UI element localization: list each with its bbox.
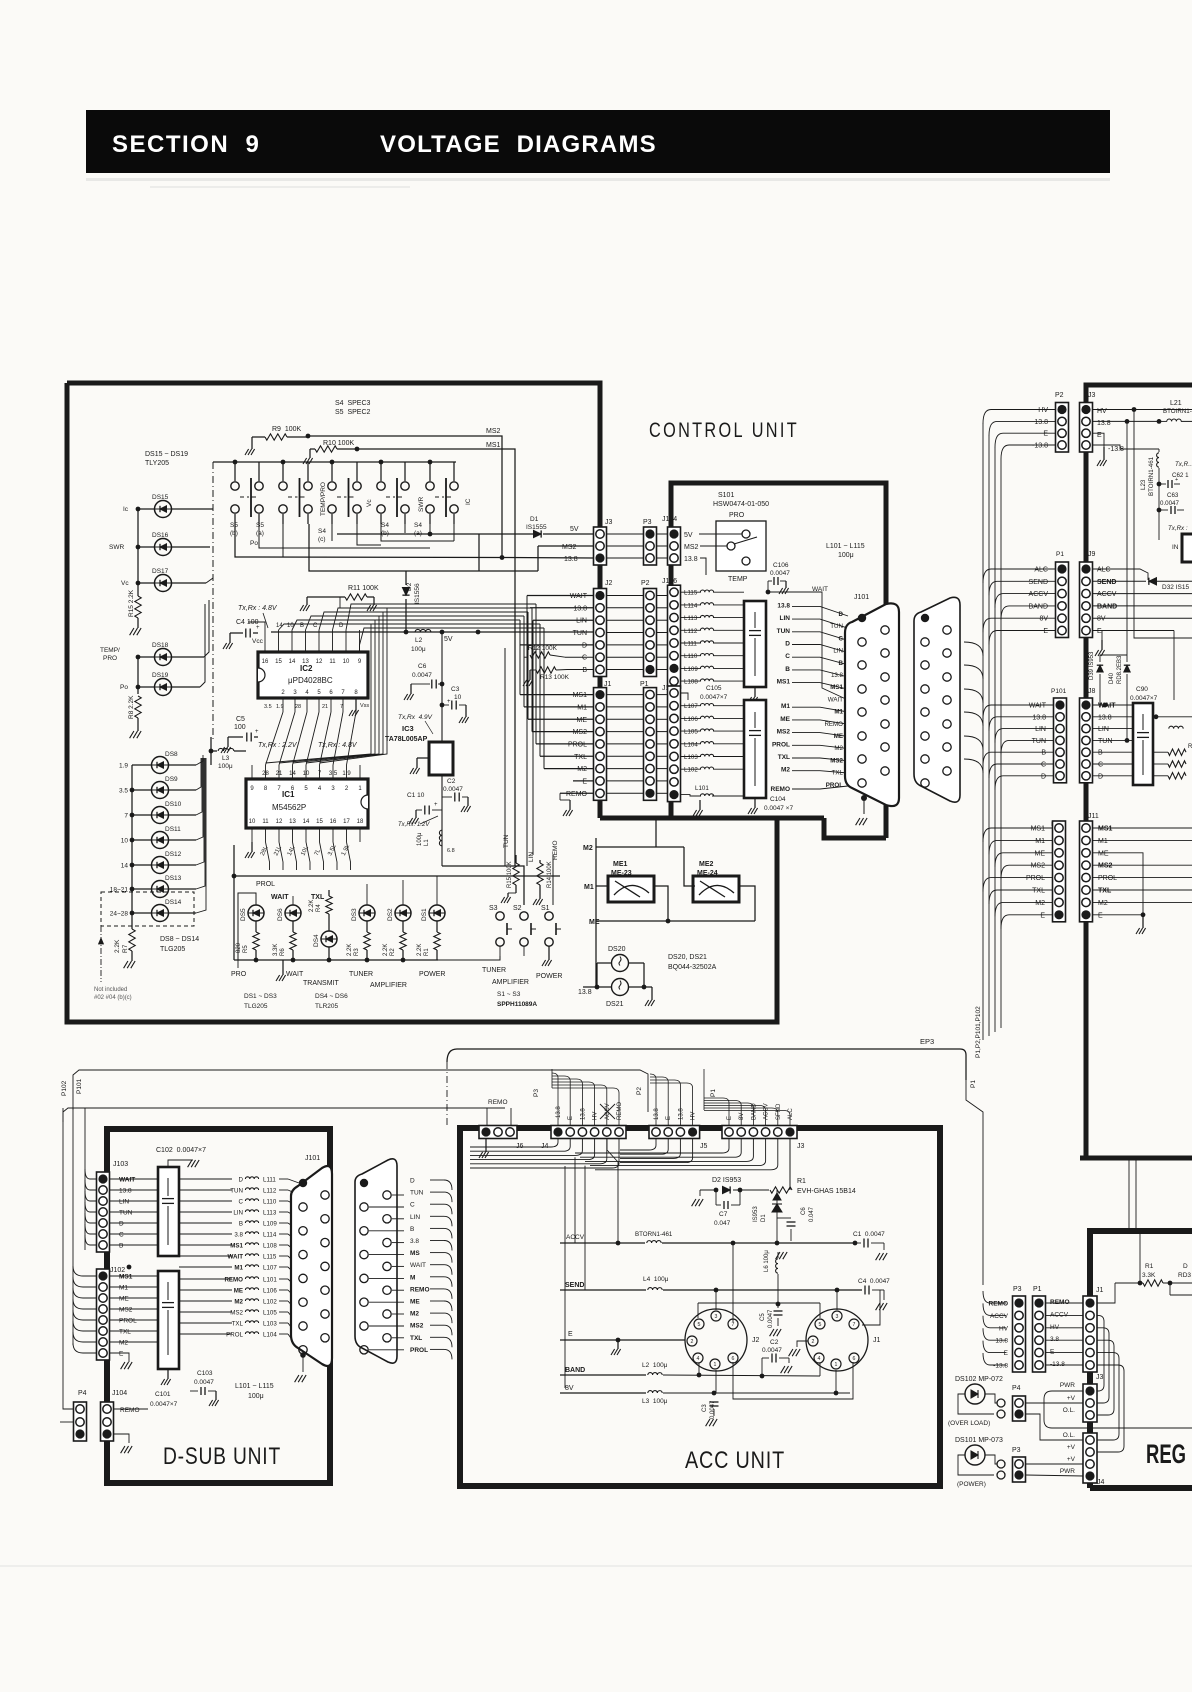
svg-text:BAND: BAND — [565, 1367, 585, 1374]
svg-text:M1: M1 — [1098, 838, 1108, 845]
svg-text:L23: L23 — [1140, 479, 1147, 490]
bus loop verticals IC2 to IC1 — [266, 624, 372, 763]
svg-text:+: + — [1175, 477, 1178, 483]
svg-text:AMPLIFIER: AMPLIFIER — [492, 979, 529, 986]
svg-text:C7: C7 — [719, 1211, 728, 1218]
vertical rail to IC3 — [441, 632, 443, 742]
svg-text:5: 5 — [819, 1322, 822, 1328]
svg-text:POWER: POWER — [419, 971, 445, 978]
svg-text:R14 100K: R14 100K — [547, 861, 553, 888]
svg-text:Tx,Rx : 2.2V: Tx,Rx : 2.2V — [258, 742, 298, 749]
svg-text:10: 10 — [121, 838, 129, 845]
wire R1 right dot down — [1169, 1283, 1171, 1295]
svg-text:L105: L105 — [263, 1310, 277, 1317]
wires into J2 rows — [527, 595, 593, 597]
svg-text:28: 28 — [295, 704, 301, 710]
svg-text:J3: J3 — [1096, 1374, 1104, 1381]
svg-text:M1: M1 — [577, 704, 587, 711]
svg-text:R15 2.2K: R15 2.2K — [128, 589, 135, 617]
svg-text:TXL: TXL — [778, 754, 790, 761]
wire DS5 top loop PRO — [238, 893, 256, 960]
svg-text:0.0047×7: 0.0047×7 — [1130, 695, 1158, 702]
svg-text:S4 SPEC3: S4 SPEC3 — [335, 400, 371, 407]
svg-text:ACC UNIT: ACC UNIT — [685, 1447, 785, 1474]
svg-text:IS953: IS953 — [753, 1206, 759, 1222]
svg-text:TXL: TXL — [574, 754, 587, 761]
svg-text:21: 21 — [322, 704, 328, 710]
svg-text:RD8.2EB3: RD8.2EB3 — [1117, 655, 1123, 684]
mating connector pins — [921, 614, 929, 622]
wire ACCV up to J4 — [617, 1162, 619, 1243]
vertical 13.8 feeder through D40 — [1126, 421, 1128, 662]
svg-text:B: B — [1098, 750, 1103, 757]
svg-text:Tx,Rx 4.9V: Tx,Rx 4.9V — [398, 714, 433, 721]
svg-text:TLG205: TLG205 — [160, 946, 185, 953]
resistor R1 EVH — [770, 1187, 792, 1193]
svg-text:100μ: 100μ — [411, 646, 426, 653]
svg-text:SEND: SEND — [1029, 579, 1048, 586]
svg-text:M1: M1 — [834, 709, 843, 716]
wires inductors to J101 dsub — [288, 1179, 299, 1183]
svg-text:ME: ME — [577, 717, 588, 724]
svg-text:S4: S4 — [318, 528, 326, 535]
svg-text:J2: J2 — [752, 1337, 760, 1344]
svg-text:DS12: DS12 — [165, 851, 182, 858]
svg-text:(a): (a) — [256, 530, 264, 537]
svg-text:(OVER LOAD): (OVER LOAD) — [948, 1420, 990, 1427]
svg-text:Po: Po — [250, 540, 258, 547]
svg-text:E: E — [119, 1351, 124, 1358]
svg-text:12: 12 — [316, 659, 323, 665]
svg-text:TEMP: TEMP — [728, 576, 748, 583]
svg-text:BAND: BAND — [1029, 603, 1048, 610]
svg-text:3: 3 — [836, 1314, 839, 1320]
svg-text:1.9: 1.9 — [276, 704, 284, 710]
svg-text:D: D — [839, 611, 844, 618]
svg-text:LIN: LIN — [576, 618, 587, 625]
svg-text:Tx,Rx :: Tx,Rx : — [1168, 525, 1188, 532]
svg-text:SWR: SWR — [109, 544, 124, 551]
svg-text:C105: C105 — [706, 685, 722, 692]
wires J3 rows right — [1093, 409, 1192, 411]
svg-text:DS14: DS14 — [165, 899, 182, 906]
svg-text:WAIT: WAIT — [1029, 703, 1047, 710]
wires J103 rows to C102 block — [110, 1178, 158, 1180]
svg-text:0.0047 ×7: 0.0047 ×7 — [764, 805, 793, 812]
svg-text:P1,P2,P101,P102: P1,P2,P101,P102 — [975, 1006, 982, 1058]
vertical HV feeder — [1132, 407, 1137, 412]
svg-text:L103: L103 — [684, 754, 698, 761]
wire J105 first row jog — [681, 693, 688, 700]
svg-text:B: B — [785, 666, 790, 673]
svg-text:7: 7 — [124, 813, 128, 820]
svg-text:R: R — [1188, 744, 1192, 750]
svg-text:BQ044-32502A: BQ044-32502A — [668, 964, 717, 971]
svg-text:MS2: MS2 — [410, 1323, 424, 1330]
svg-text:L110: L110 — [263, 1199, 277, 1206]
svg-text:DS4: DS4 — [313, 934, 320, 947]
svg-text:6: 6 — [853, 1356, 856, 1362]
svg-text:P1: P1 — [1056, 551, 1064, 558]
svg-text:DS4 ~ DS6: DS4 ~ DS6 — [315, 993, 348, 1000]
svg-text:J4: J4 — [541, 1143, 549, 1150]
svg-text:DS1 ~ DS3: DS1 ~ DS3 — [244, 993, 277, 1000]
svg-text:4: 4 — [818, 1356, 821, 1362]
svg-text:100μ: 100μ — [248, 1393, 264, 1400]
wire J2 pin1 down to 8V — [715, 1370, 717, 1393]
svg-text:100μ: 100μ — [838, 552, 854, 559]
links P1 to J105 rows — [657, 694, 667, 696]
svg-text:13.8: 13.8 — [995, 1338, 1008, 1345]
svg-text:WAIT: WAIT — [410, 1262, 426, 1269]
connector J6 — [479, 1126, 517, 1139]
svg-text:S2: S2 — [513, 905, 522, 912]
svg-text:J3: J3 — [797, 1143, 805, 1150]
wire J2 pin3 up to SEND — [715, 1290, 717, 1310]
mating pins dsub — [360, 1179, 368, 1187]
wires J8 rows to C90 block — [1103, 703, 1108, 708]
wires P3 to J4 — [1026, 1463, 1083, 1465]
svg-text:L115: L115 — [263, 1254, 277, 1261]
5V rail y632 — [271, 631, 593, 633]
svg-text:P102: P102 — [61, 1080, 68, 1096]
svg-text:7: 7 — [853, 1322, 856, 1328]
svg-text:DS15 ~ DS19: DS15 ~ DS19 — [145, 451, 188, 458]
ACC UNIT box — [460, 1128, 940, 1486]
svg-text:17: 17 — [343, 819, 350, 825]
ground under S1 — [548, 946, 550, 960]
svg-text:+: + — [255, 729, 259, 735]
svg-text:L107: L107 — [684, 703, 698, 710]
wire P4 to J3 — [1026, 1402, 1083, 1404]
svg-text:D32 IS15: D32 IS15 — [1162, 584, 1189, 591]
svg-text:16: 16 — [262, 659, 269, 665]
svg-text:LIN: LIN — [119, 1199, 129, 1206]
svg-text:DS16: DS16 — [152, 532, 169, 539]
svg-text:VOLTAGE DIAGRAMS: VOLTAGE DIAGRAMS — [380, 131, 657, 158]
svg-text:MS2: MS2 — [486, 428, 501, 435]
svg-text:PRO: PRO — [231, 971, 247, 978]
svg-text:TUN: TUN — [1032, 738, 1046, 745]
svg-text:ALC: ALC — [1034, 567, 1048, 574]
svg-text:TXL: TXL — [311, 894, 325, 901]
svg-text:R5: R5 — [243, 945, 249, 953]
svg-text:14: 14 — [289, 659, 296, 665]
ground under R7 — [124, 961, 128, 968]
svg-text:L114: L114 — [263, 1232, 277, 1239]
wires C102/C101 to inductor rows — [179, 1178, 232, 1180]
J3 pin top stubs — [704, 1098, 729, 1126]
svg-text:C63: C63 — [1167, 492, 1179, 499]
svg-text:Po: Po — [120, 684, 128, 691]
svg-text:DS6: DS6 — [277, 908, 284, 921]
IC1 bottom pin wires — [251, 828, 253, 842]
svg-text:0.0047×7: 0.0047×7 — [700, 694, 728, 701]
svg-text:8V: 8V — [739, 1113, 745, 1120]
svg-text:HV: HV — [1038, 407, 1048, 414]
svg-text:S3: S3 — [489, 905, 498, 912]
svg-text:L106: L106 — [263, 1288, 277, 1295]
svg-text:Not included: Not included — [94, 987, 127, 993]
svg-text:B: B — [239, 1221, 243, 1228]
wires J106 rows to cap block — [713, 591, 744, 593]
svg-text:C106: C106 — [773, 562, 789, 569]
svg-text:0.0047: 0.0047 — [194, 1379, 214, 1386]
wire MS2 into J3 — [538, 545, 593, 547]
svg-text:2.2K: 2.2K — [347, 944, 353, 956]
svg-text:J3: J3 — [1088, 392, 1096, 399]
svg-text:1: 1 — [835, 1362, 838, 1368]
svg-text:ACCV: ACCV — [1097, 591, 1117, 598]
svg-text:TUN: TUN — [1098, 738, 1112, 745]
svg-text:L112: L112 — [263, 1188, 277, 1195]
wires IC1 bottom fanning — [266, 842, 270, 870]
wires J2-P2 — [607, 595, 643, 597]
svg-text:M54562P: M54562P — [272, 803, 306, 812]
svg-text:REMO: REMO — [410, 1286, 430, 1293]
wire MS1 from R10 down right side — [357, 449, 515, 866]
svg-text:D2 IS953: D2 IS953 — [712, 1177, 741, 1184]
wire R11 up to IC2 D bus — [339, 597, 341, 608]
svg-text:TXL: TXL — [119, 1329, 131, 1336]
bus verticals right side — [982, 423, 984, 1040]
ground above C102 — [168, 1160, 193, 1167]
svg-text:TUN: TUN — [119, 1210, 133, 1217]
svg-text:ME2: ME2 — [699, 861, 714, 868]
svg-text:BAND: BAND — [1097, 603, 1117, 610]
ground under R8 — [130, 731, 134, 738]
svg-text:13.8: 13.8 — [119, 1188, 132, 1195]
IC1 body M54562P — [246, 779, 368, 828]
faint scan smudge under title — [86, 178, 1110, 181]
svg-text:E: E — [1050, 1349, 1055, 1356]
svg-text:E: E — [568, 1331, 573, 1338]
svg-text:DS20, DS21: DS20, DS21 — [668, 954, 707, 961]
svg-text:REMO: REMO — [566, 791, 588, 798]
svg-text:TLY205: TLY205 — [145, 460, 169, 467]
svg-text:13.8: 13.8 — [1032, 714, 1046, 721]
svg-text:-13.8: -13.8 — [1050, 1361, 1065, 1368]
svg-text:C: C — [410, 1202, 415, 1209]
svg-text:AMPLIFIER: AMPLIFIER — [370, 982, 407, 989]
svg-text:S101: S101 — [718, 492, 734, 499]
wires J1 right pins — [854, 1290, 868, 1322]
left feeder joint — [564, 1166, 566, 1170]
svg-text:P3: P3 — [533, 1089, 540, 1097]
svg-text:D: D — [410, 1178, 415, 1185]
svg-text:MS2: MS2 — [1031, 863, 1046, 870]
svg-text:J9: J9 — [1088, 551, 1096, 558]
REG unit box — [1090, 1231, 1192, 1488]
svg-text:(POWER): (POWER) — [957, 1481, 986, 1488]
svg-text:C3: C3 — [702, 1404, 708, 1412]
svg-text:L106: L106 — [684, 716, 698, 723]
svg-text:ACCV: ACCV — [1029, 591, 1049, 598]
svg-text:M: M — [410, 1274, 415, 1281]
LED DS101 — [965, 1445, 985, 1465]
svg-text:C: C — [582, 655, 587, 662]
svg-text:L3 100μ: L3 100μ — [642, 1398, 668, 1405]
svg-text:C: C — [119, 1232, 124, 1239]
wire row y557 into J3 13.8 — [235, 524, 593, 558]
CONTROL UNIT right sub-box — [671, 483, 886, 838]
svg-text:MS2: MS2 — [684, 544, 699, 551]
svg-text:E: E — [1043, 628, 1048, 635]
svg-text:TRANSMIT: TRANSMIT — [303, 980, 340, 987]
svg-text:PROL: PROL — [826, 782, 843, 789]
svg-text:D: D — [582, 642, 587, 649]
svg-text:LIN: LIN — [233, 1210, 243, 1217]
svg-text:SEND: SEND — [1097, 579, 1116, 586]
links P2 to J106 rows — [657, 595, 667, 597]
svg-text:PROL: PROL — [1098, 875, 1117, 882]
svg-text:L110: L110 — [684, 653, 698, 660]
ground under J102 E — [110, 1353, 129, 1362]
svg-text:+V: +V — [1067, 1444, 1076, 1451]
svg-text:SEND: SEND — [565, 1282, 584, 1289]
svg-text:3.8: 3.8 — [234, 1232, 243, 1239]
svg-text:0.0047: 0.0047 — [412, 672, 432, 679]
svg-text:L107: L107 — [263, 1265, 277, 1272]
wire left vertical M-group — [595, 838, 597, 987]
svg-text:V​ss: V​ss — [360, 703, 369, 709]
svg-text:REMO: REMO — [120, 1407, 140, 1414]
svg-text:ME1: ME1 — [613, 861, 628, 868]
svg-text:5: 5 — [698, 1322, 701, 1328]
svg-text:TUNER: TUNER — [482, 967, 506, 974]
svg-text:L3: L3 — [222, 755, 230, 762]
svg-text:EVH-GHAS 15B14: EVH-GHAS 15B14 — [797, 1188, 856, 1195]
svg-text:RD3: RD3 — [1178, 1272, 1191, 1279]
svg-text:M2: M2 — [834, 745, 843, 752]
svg-text:13.8: 13.8 — [654, 1108, 660, 1120]
svg-text:DS9: DS9 — [165, 776, 178, 783]
svg-text:4: 4 — [697, 1356, 700, 1362]
svg-text:TUNER: TUNER — [349, 971, 373, 978]
svg-text:13.8: 13.8 — [831, 672, 844, 679]
svg-text:2.2K: 2.2K — [417, 944, 423, 956]
capacitor block C105 — [744, 601, 766, 687]
svg-text:TXL: TXL — [232, 1321, 244, 1328]
svg-text:SECTION 9: SECTION 9 — [112, 131, 260, 158]
svg-text:C3: C3 — [451, 686, 460, 693]
svg-text:PROL: PROL — [226, 1332, 243, 1339]
capacitor C7 0.047 — [715, 1190, 717, 1205]
svg-text:P1: P1 — [970, 1080, 977, 1088]
svg-text:REMO: REMO — [488, 1099, 508, 1106]
svg-text:Ic: Ic — [123, 506, 129, 513]
svg-text:0.0047×7: 0.0047×7 — [150, 1401, 178, 1408]
wire DS8-14 cathode bus — [131, 765, 133, 922]
svg-text:C101: C101 — [155, 1391, 171, 1398]
svg-text:100μ: 100μ — [417, 832, 423, 846]
ground J11 E — [1142, 915, 1144, 928]
svg-text:IC: IC — [465, 498, 472, 505]
capacitor block C104 — [744, 700, 766, 798]
svg-text:ME: ME — [1035, 850, 1046, 857]
svg-text:L2: L2 — [415, 637, 423, 644]
wires DS15-19 to right routing — [204, 600, 209, 657]
svg-text:TUN: TUN — [230, 1188, 243, 1195]
svg-text:PROL: PROL — [410, 1347, 428, 1354]
bus vertical to REG — [966, 1080, 983, 1285]
svg-text:Tx,Rx : 4.8V: Tx,Rx : 4.8V — [238, 605, 278, 612]
wire MS2 from R9 down to 13.8 row — [308, 436, 502, 556]
svg-text:L21: L21 — [1170, 400, 1182, 407]
svg-text:EP3: EP3 — [920, 1037, 934, 1046]
svg-text:ALC: ALC — [1097, 567, 1111, 574]
svg-text:TUN: TUN — [777, 628, 791, 635]
wire DS18-19 bus — [137, 657, 139, 694]
wire PROL long run — [234, 845, 560, 876]
svg-text:S5 SPEC2: S5 SPEC2 — [335, 409, 371, 416]
diode D32 — [1149, 578, 1157, 585]
svg-text:REG: REG — [1146, 1439, 1186, 1469]
wires mating pins right short — [369, 1206, 404, 1208]
svg-text:Vc: Vc — [366, 499, 373, 507]
wires J9 lower rows — [1093, 593, 1192, 595]
svg-text:C102 0.0047×7: C102 0.0047×7 — [156, 1147, 206, 1154]
svg-text:0.0047: 0.0047 — [710, 1400, 716, 1419]
svg-text:PROL: PROL — [772, 741, 790, 748]
svg-text:J3: J3 — [605, 519, 613, 526]
wire IC3 rail to switch area — [442, 866, 524, 905]
switch matrix top bus — [213, 461, 456, 463]
J101 bottom pin and ground — [861, 795, 867, 801]
svg-text:MS1: MS1 — [830, 684, 843, 691]
svg-text:16: 16 — [330, 819, 337, 825]
svg-text:P2: P2 — [1055, 392, 1064, 399]
svg-text:L102: L102 — [684, 767, 698, 774]
svg-text:J101: J101 — [305, 1155, 320, 1162]
svg-text:J5: J5 — [700, 1143, 708, 1150]
svg-text:+: + — [447, 699, 451, 705]
wires top pins to right bus — [279, 624, 541, 630]
svg-text:Tx,Rx: 1.2V: Tx,Rx: 1.2V — [398, 822, 430, 828]
wires J3 pins fan down-left nested — [575, 1139, 729, 1153]
svg-text:MS1: MS1 — [573, 692, 588, 699]
svg-text:13.8: 13.8 — [1034, 419, 1048, 426]
svg-text:S1: S1 — [541, 905, 550, 912]
svg-text:100: 100 — [234, 724, 246, 731]
hooks P101 to bus — [983, 705, 1053, 719]
ground stub J1 pin2 — [797, 1341, 808, 1347]
svg-text:#02 #04 (b)(c): #02 #04 (b)(c) — [94, 995, 132, 1001]
svg-text:C2: C2 — [770, 1339, 779, 1346]
svg-text:ACCV: ACCV — [764, 1103, 770, 1120]
svg-text:M2: M2 — [410, 1311, 419, 1318]
svg-text:REMO: REMO — [1050, 1299, 1070, 1306]
connector J3 acc — [722, 1126, 797, 1139]
svg-text:J104: J104 — [662, 516, 677, 523]
ground left of D2 — [699, 1190, 701, 1196]
svg-text:0.0047: 0.0047 — [762, 1347, 782, 1354]
svg-text:L111: L111 — [684, 641, 697, 648]
svg-text:C: C — [839, 635, 844, 642]
svg-text:TUN: TUN — [573, 630, 587, 637]
bundle verticals through R12 zone — [526, 596, 528, 867]
svg-text:L112: L112 — [684, 628, 698, 635]
svg-text:L101: L101 — [263, 1277, 277, 1284]
capacitor block C101 — [158, 1271, 179, 1369]
svg-text:PROL: PROL — [1026, 875, 1045, 882]
svg-text:C1 10: C1 10 — [407, 792, 425, 799]
dashed selection box around DS13/DS14 — [101, 892, 194, 926]
svg-text:μPD4028BC: μPD4028BC — [288, 676, 333, 685]
svg-text:J11: J11 — [1088, 813, 1099, 820]
svg-text:13.8: 13.8 — [578, 989, 592, 996]
svg-text:0.0047: 0.0047 — [1160, 500, 1179, 507]
